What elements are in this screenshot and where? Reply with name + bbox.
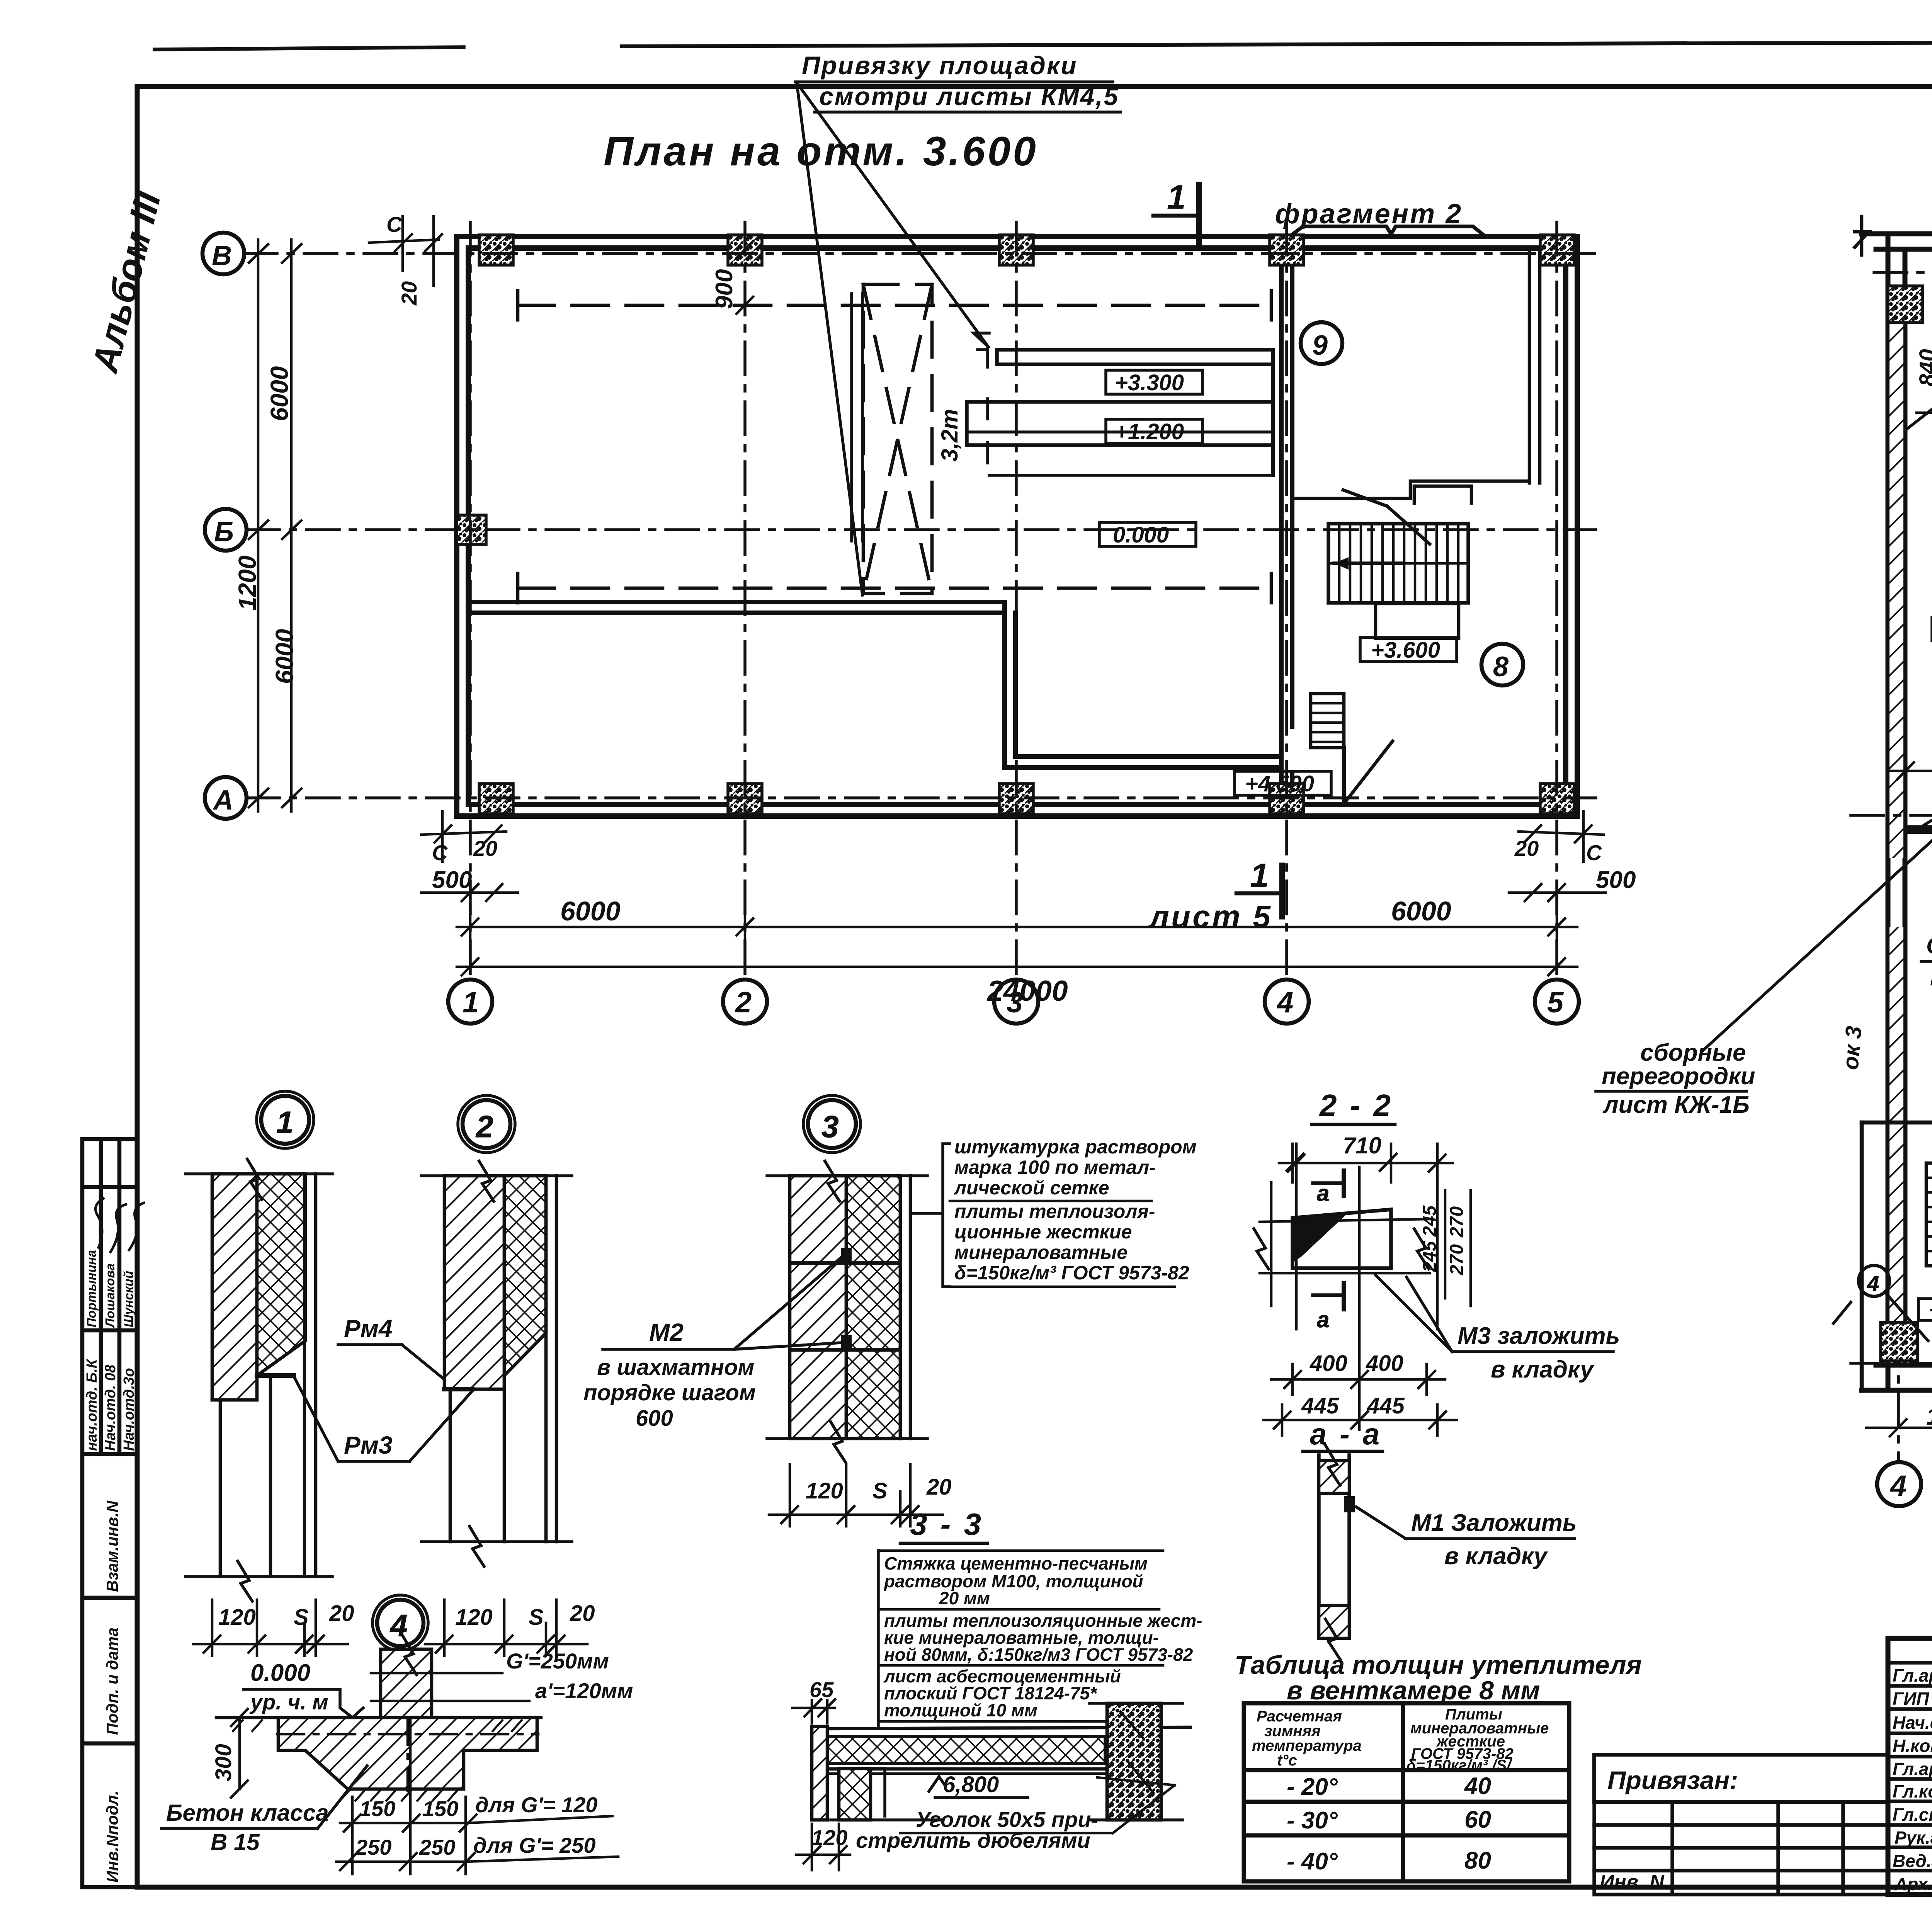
svg-text:+1.200: +1.200 [1115,419,1184,444]
insulation table data [1287,1773,1491,1875]
svg-text:G'=250мм: G'=250мм [506,1649,609,1673]
svg-text:270: 270 [1447,1244,1467,1276]
+4.500 label frag [1918,1298,1932,1321]
svg-text:20: 20 [473,836,497,861]
svg-text:раствором М100, толщиной: раствором М100, толщиной [883,1571,1143,1591]
titles [604,128,1932,186]
svg-text:6000: 6000 [560,896,621,926]
sheet top edge line [155,42,1932,49]
level label +3.600 [1360,638,1457,663]
svg-text:марка 100 по метал-: марка 100 по метал- [954,1156,1156,1178]
svg-text:S: S [529,1605,544,1630]
svg-text:в кладку: в кладку [1491,1356,1595,1383]
interior wall horizontal left [468,602,1005,613]
frag bottom wall [1862,1365,1932,1390]
axis lines horizontal dash-dot [244,253,1596,798]
svg-text:- 40°: - 40° [1287,1848,1338,1875]
svg-text:План на отм. 3.600: План на отм. 3.600 [604,128,1038,174]
уголок note [856,1777,1175,1852]
svg-text:для G'= 120: для G'= 120 [475,1793,598,1817]
svg-text:150: 150 [359,1796,395,1821]
duct wall room9 [1292,248,1540,503]
insulation table title [1235,1650,1642,1705]
svg-text:400: 400 [1366,1351,1403,1376]
svg-text:S: S [872,1478,888,1503]
dashed beam line lower [518,573,1271,603]
svg-text:20: 20 [926,1475,952,1500]
svg-text:4: 4 [1276,986,1293,1019]
svg-text:6,800: 6,800 [943,1772,999,1797]
6.800 mark [929,1772,1028,1798]
svg-text:δ=150кг/м³ /S/: δ=150кг/м³ /S/ [1406,1757,1512,1774]
detail 4 column [371,1634,529,1718]
svg-text:А: А [213,785,233,816]
column squares bottom [479,784,1574,814]
svg-text:120: 120 [455,1605,493,1630]
svg-text:штукатурка раствором: штукатурка раствором [954,1136,1197,1158]
svg-text:в шахматном: в шахматном [597,1355,754,1380]
svg-text:+4.500: +4.500 [1245,771,1314,796]
svg-text:120: 120 [218,1605,256,1630]
svg-text:М2: М2 [649,1318,684,1346]
svg-text:300: 300 [211,1744,236,1781]
bottom dim line 6000s [457,908,1577,943]
svg-text:5: 5 [1547,986,1564,1019]
svg-text:20: 20 [1514,836,1539,861]
svg-text:ур. ч. м: ур. ч. м [249,1690,328,1714]
svg-text:445: 445 [1367,1393,1405,1418]
Рм3 label [294,1378,472,1461]
insulation table header texts [1252,1706,1549,1774]
titleblock job labels [1893,1665,1932,1894]
svg-text:низ на отм. Б.БЗО: низ на отм. Б.БЗО [1930,964,1932,990]
svg-text:в венткамере 8 мм: в венткамере 8 мм [1287,1676,1540,1705]
М3 заложить note [1376,1275,1620,1383]
svg-text:М1 Заложить: М1 Заложить [1411,1510,1577,1536]
svg-text:перегородки: перегородки [1602,1063,1755,1090]
svg-text:250: 250 [355,1835,391,1859]
section 2-2 right dims [1420,1205,1467,1276]
svg-text:2: 2 [475,1109,493,1144]
svg-text:40: 40 [1464,1773,1491,1799]
interior wall horizontal mid [1005,757,1281,767]
building outer walls [457,236,1577,816]
svg-text:ной 80мм, δ:150кг/м3 ГОСТ 9573: ной 80мм, δ:150кг/м3 ГОСТ 9573-82 [884,1645,1193,1665]
svg-text:a'=120мм: a'=120мм [535,1679,633,1703]
detail 3 wall section [767,1161,927,1462]
svg-text:для G'= 250: для G'= 250 [473,1833,596,1857]
svg-text:температура: температура [1252,1737,1362,1754]
detail 3 plaster note [950,1136,1197,1287]
frag axis 4 dash-dot [1897,1333,1900,1459]
svg-text:В 15: В 15 [211,1829,260,1855]
Рм4 label [338,1315,444,1379]
svg-text:Нач.отд.: Нач.отд. [1893,1713,1932,1733]
frag axis B dash-dot [1874,271,1932,274]
svg-text:2 - 2: 2 - 2 [1319,1088,1393,1122]
frag bottom-left column [1881,1322,1918,1361]
svg-text:2: 2 [735,986,752,1019]
column square left wall axis B [457,515,486,544]
detail 3 circle [803,1095,861,1153]
interior wall vertical [1281,248,1292,804]
svg-text:t°с: t°с [1277,1752,1297,1769]
svg-text:500: 500 [432,867,472,893]
circled 4 node [1833,1265,1928,1341]
svg-text:Арх.: Арх. [1894,1874,1932,1894]
small stair frag bottom [1926,1163,1932,1266]
svg-text:ок 3: ок 3 [1838,1025,1867,1071]
section flag 1 top [1153,185,1199,243]
section 3-3 drawing (slab with insulation) [812,1703,1190,1820]
svg-text:Вед.арх.: Вед.арх. [1893,1851,1932,1871]
svg-text:6000: 6000 [265,366,293,421]
svg-text:0.000: 0.000 [1113,522,1169,548]
axis lines vertical dash-dot [470,222,1557,980]
stair plan small bottom [1311,694,1393,804]
svg-text:а: а [1317,1307,1329,1332]
section 2-2 dims 445 [1301,1393,1405,1418]
svg-text:В: В [212,240,232,271]
svg-text:245: 245 [1420,1241,1440,1272]
svg-text:лист 5: лист 5 [1148,899,1272,934]
section 2-2 title [1312,1088,1395,1124]
foundation dims row1 [359,1793,598,1821]
detail 4 circle [372,1595,428,1651]
svg-text:а - а: а - а [1310,1417,1382,1451]
svg-text:3: 3 [821,1109,839,1144]
left strip signatures [87,1199,144,1252]
svg-text:20 мм: 20 мм [939,1588,990,1608]
svg-text:24000: 24000 [986,975,1068,1007]
left dim texts [233,366,298,684]
svg-text:Н.контр.: Н.контр. [1893,1736,1932,1756]
svg-text:1: 1 [463,986,479,1019]
left strip std labels [103,1500,121,1883]
svg-text:20: 20 [570,1601,595,1626]
titleblock outer [1888,1638,1932,1895]
svg-text:Привязан:: Привязан: [1607,1766,1738,1794]
wall stub at small stair [1862,1122,1932,1390]
svg-text:плиты теплоизоля-: плиты теплоизоля- [954,1201,1155,1222]
frag axis 4 circle [1877,1462,1921,1506]
svg-text:ОтВ. 300x300 ОВ: ОтВ. 300x300 ОВ [1926,933,1932,959]
svg-text:Инв.Nподл.: Инв.Nподл. [103,1791,121,1883]
frag axis A dash-dot [1851,1362,1932,1365]
svg-text:245: 245 [1420,1205,1440,1237]
svg-text:+3.300: +3.300 [1115,370,1184,395]
svg-text:150: 150 [422,1796,458,1821]
svg-text:стрелить дюбелями: стрелить дюбелями [856,1828,1090,1852]
room circle 9 [1301,322,1342,364]
svg-text:Рук.гр.: Рук.гр. [1895,1828,1932,1848]
bottom dim line 24000 [457,958,1577,975]
axis circle A [205,777,247,819]
frag top-left column [1888,286,1923,323]
foundation body [216,1718,541,1801]
svg-text:3 - 3: 3 - 3 [910,1507,983,1541]
detail 3 dims [806,1475,952,1503]
svg-text:8: 8 [1493,651,1509,682]
level label 0.000 [1099,522,1196,548]
svg-text:Б: Б [214,517,234,548]
svg-text:1200: 1200 [233,556,261,611]
svg-text:Гл.арх.пр.: Гл.арх.пр. [1893,1665,1932,1685]
svg-text:Бетон класса: Бетон класса [166,1800,329,1826]
svg-text:в кладку: в кладку [1444,1543,1548,1570]
svg-text:4: 4 [1889,1469,1906,1502]
axis circle B [202,233,244,274]
section 3-3 text block [878,1551,1202,1721]
svg-text:1200: 1200 [1926,1403,1932,1430]
svg-text:Рм3: Рм3 [344,1431,393,1459]
svg-text:смотри листы КМ4,5: смотри листы КМ4,5 [819,82,1119,111]
section 3-3 vertical ref line [877,1551,880,1727]
section a-a title [1303,1417,1383,1451]
svg-text:9: 9 [1312,330,1328,361]
svg-text:1: 1 [1167,178,1186,216]
svg-text:500: 500 [1596,867,1636,893]
opening note 700x700 [1908,328,1932,428]
detail 2 dims [455,1601,595,1630]
svg-text:Лошакова: Лошакова [103,1264,117,1328]
М2 note [583,1258,841,1431]
svg-text:Нач.отд.3о: Нач.отд.3о [121,1368,137,1451]
privyazan grid [1594,1802,1888,1895]
left strip names [84,1250,136,1328]
frag top wall [1862,234,1932,249]
crane rail verticals [852,294,862,541]
svg-text:С: С [432,840,448,865]
svg-text:S: S [294,1605,309,1630]
dashed equipment zone [863,284,932,594]
а flags [1313,1171,1344,1332]
svg-text:400: 400 [1310,1351,1347,1376]
privyazku note [795,51,1121,112]
сборные перегородки note [1596,831,1932,1118]
svg-text:Портынина: Портынина [84,1250,99,1327]
svg-text:Таблица толщин утеплителя: Таблица толщин утеплителя [1235,1650,1642,1680]
titleblock rows left part [1888,1663,1932,1871]
level label +1.200 [1106,419,1202,444]
axis circle B2 [205,509,247,551]
interior wall vertical mid [1005,602,1015,767]
stair plan room9 [1328,490,1468,638]
svg-text:порядке шагом: порядке шагом [583,1380,756,1405]
svg-text:Привязку площадки: Привязку площадки [802,51,1078,80]
svg-text:лист КЖ-1Б: лист КЖ-1Б [1602,1092,1750,1118]
frag left wall hatch band [1889,309,1903,858]
svg-text:840: 840 [1915,349,1932,386]
svg-text:Гл.спец.: Гл.спец. [1893,1804,1932,1825]
platform left ticks [978,347,988,463]
level label +3.300 [1106,370,1202,395]
detail 1 circle [257,1091,314,1148]
album III rotated label [84,187,169,377]
svg-text:Подп. и дата: Подп. и дата [103,1628,121,1735]
svg-text:минераловатные: минераловатные [954,1242,1128,1263]
svg-text:- 30°: - 30° [1287,1807,1338,1834]
svg-text:0.000: 0.000 [250,1660,310,1686]
section flag 1 bottom / лист 5 [1236,866,1282,917]
svg-text:Гл.арх.: Гл.арх. [1893,1759,1932,1779]
frag left wall [1888,234,1905,1390]
svg-text:Нач.отд. 08: Нач.отд. 08 [102,1364,119,1451]
svg-text:М3 заложить: М3 заложить [1458,1323,1620,1349]
svg-text:фрагмент 2: фрагмент 2 [1275,199,1463,230]
svg-text:+4.500: +4.500 [1929,1298,1932,1321]
svg-text:Инв. N: Инв. N [1600,1871,1665,1893]
svg-text:270: 270 [1447,1206,1467,1238]
circled 3 left with leader [1905,783,1932,834]
svg-text:120: 120 [811,1825,847,1850]
svg-text:С: С [386,212,403,236]
0.000 level mark [243,1660,363,1718]
svg-text:- 20°: - 20° [1287,1774,1338,1800]
room circle 8 [1481,644,1523,685]
svg-text:С: С [1586,840,1602,865]
level label +4.500 [1235,771,1331,796]
svg-text:+3.600: +3.600 [1371,638,1440,663]
svg-text:4: 4 [1867,1271,1879,1296]
frag top-left cut mark [1855,216,1869,255]
svg-text:толщиной 10 мм: толщиной 10 мм [884,1700,1037,1720]
svg-text:60: 60 [1464,1806,1491,1833]
left dim lines [249,240,301,811]
svg-text:Гл.констр: Гл.констр [1893,1781,1932,1801]
svg-text:250: 250 [419,1835,455,1859]
section 3-3 title [900,1507,987,1543]
отв.300x300 note [1921,933,1932,990]
left strip dept labels [84,1358,137,1451]
foundation dims row2 [355,1833,596,1859]
svg-text:ционные жесткие: ционные жесткие [954,1221,1132,1243]
svg-text:а: а [1317,1181,1329,1206]
svg-text:1: 1 [276,1105,294,1139]
detail 1 wall section [185,1159,332,1601]
svg-text:δ=150кг/м³ ГОСТ 9573-82: δ=150кг/м³ ГОСТ 9573-82 [954,1262,1189,1284]
corner ties bottom-left [421,811,518,901]
svg-text:лической сетке: лической сетке [954,1177,1109,1199]
svg-text:80: 80 [1464,1847,1491,1874]
svg-text:900: 900 [711,269,738,309]
svg-text:ГИП: ГИП [1893,1689,1929,1709]
svg-text:нач.отд. Б.К: нач.отд. Б.К [84,1358,100,1451]
svg-text:710: 710 [1343,1133,1381,1158]
beton label [162,1766,367,1855]
G dims labels [506,1649,633,1703]
axis circles 1-5 bottom [448,980,1579,1024]
frag axis Б dash-dot [1851,814,1932,817]
М1 заложить note [1356,1507,1577,1570]
column squares top [479,235,1574,265]
svg-text:600: 600 [636,1406,673,1431]
svg-text:Альбом III: Альбом III [84,187,169,377]
svg-text:3,2т: 3,2т [937,409,963,462]
left margin boxes grid [82,1139,138,1887]
insulation table grid [1244,1703,1569,1881]
fragment-2 overlay bump on plan [1291,226,1485,236]
privyazku leaders [797,83,989,595]
privyazan box [1594,1755,1888,1802]
svg-text:сборные: сборные [1640,1039,1746,1066]
platform +3.300 [997,350,1273,364]
svg-text:120: 120 [806,1478,843,1503]
svg-text:6000: 6000 [1391,896,1451,926]
dashed beam line upper [518,291,1271,320]
svg-text:Шунский: Шунский [121,1271,136,1327]
platform +1.200 [967,350,1273,475]
corner ties bottom-right [1509,811,1605,901]
section 2-2 dims 400 [1310,1351,1403,1376]
detail 2 wall section [421,1161,572,1566]
corner ties top-left [369,216,442,286]
svg-text:6000: 6000 [270,629,298,684]
section 2-2 dim line 710 ticks [1287,1144,1396,1182]
svg-text:20: 20 [397,281,421,306]
svg-text:Стяжка цементно-песчаным: Стяжка цементно-песчаным [884,1553,1148,1573]
section 2-2 lintel drawing [1254,1167,1430,1430]
section a-a wall [1319,1445,1355,1659]
svg-text:Рм4: Рм4 [344,1315,393,1342]
svg-text:65: 65 [810,1677,834,1702]
svg-text:1: 1 [1250,856,1269,895]
svg-text:20: 20 [329,1601,354,1626]
detail 1 dims [218,1601,354,1630]
svg-text:445: 445 [1301,1393,1339,1418]
detail 2 circle [458,1095,515,1153]
svg-text:Взам.инв.N: Взам.инв.N [103,1500,121,1592]
